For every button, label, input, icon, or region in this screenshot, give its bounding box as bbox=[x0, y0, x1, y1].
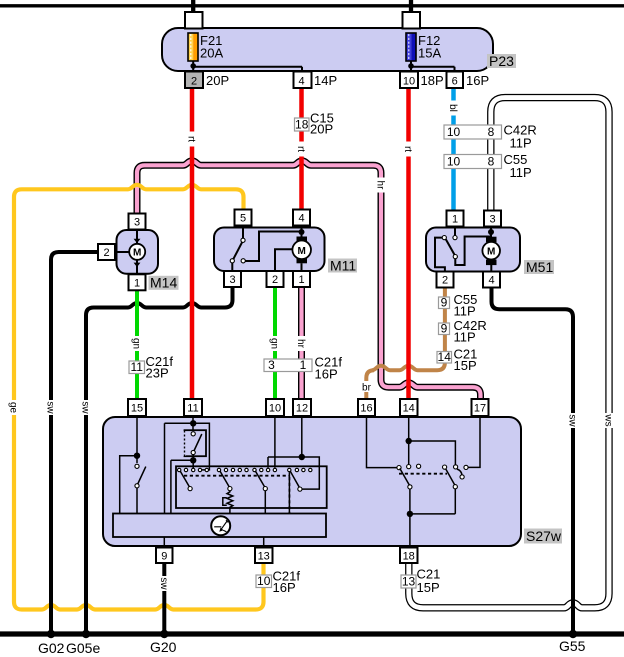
svg-text:8: 8 bbox=[488, 155, 495, 169]
pin 4 of M51 bbox=[483, 272, 500, 288]
svg-text:1: 1 bbox=[300, 358, 307, 372]
svg-text:15P: 15P bbox=[454, 358, 477, 373]
svg-text:14: 14 bbox=[438, 350, 452, 364]
svg-text:G05e: G05e bbox=[66, 640, 100, 656]
svg-text:rt: rt bbox=[186, 136, 197, 142]
wire blue bl: P23 pin6 down to M51 pin1 bbox=[451, 88, 456, 211]
svg-text:2: 2 bbox=[103, 247, 109, 259]
svg-text:4: 4 bbox=[298, 76, 304, 88]
wire pink hr: M14 pin3 up, right along y165, down x381, right along y387 to S27w pin17 bbox=[137, 161, 481, 400]
svg-text:4: 4 bbox=[488, 275, 494, 287]
svg-text:9: 9 bbox=[161, 551, 167, 563]
wire label bl on blue x453.5 bbox=[447, 101, 459, 116]
connector C21 15P pin 13 on white x408.7 bbox=[401, 567, 440, 596]
svg-text:2: 2 bbox=[272, 274, 278, 286]
wire label sw on black x86 bbox=[80, 400, 92, 415]
pin 17 of S27w bbox=[472, 399, 489, 416]
svg-text:M: M bbox=[487, 247, 495, 258]
wire label gn on green x275 bbox=[269, 336, 281, 351]
connector C21f 16P pin 10 on yellow x263.5 bbox=[256, 569, 300, 596]
svg-text:11: 11 bbox=[187, 403, 198, 415]
wire stub bus to F12 holder bbox=[409, 0, 413, 13]
label S27w bbox=[524, 528, 562, 544]
pin 13 of S27w bbox=[255, 548, 273, 564]
svg-text:12: 12 bbox=[296, 403, 308, 415]
wire stub bus to F21 holder bbox=[191, 0, 195, 13]
connector C55 11P pins 10/8 on blue+white bbox=[444, 152, 532, 180]
svg-text:M14: M14 bbox=[150, 275, 177, 291]
S27w internal: program switch bank box bbox=[176, 466, 327, 508]
svg-text:10: 10 bbox=[447, 125, 461, 139]
ground G05e bbox=[66, 630, 100, 656]
svg-text:G55: G55 bbox=[559, 638, 586, 654]
svg-text:1: 1 bbox=[298, 274, 304, 286]
svg-text:M11: M11 bbox=[330, 257, 356, 273]
svg-text:16P: 16P bbox=[466, 73, 489, 88]
label M14 bbox=[149, 275, 179, 291]
wire label sw on black x51 bbox=[45, 400, 57, 415]
svg-text:2: 2 bbox=[442, 275, 448, 287]
label M11 bbox=[328, 257, 357, 273]
pin 18 of S27w bbox=[400, 548, 418, 564]
svg-text:M51: M51 bbox=[526, 259, 553, 275]
pin 2 of M11 bbox=[267, 271, 284, 287]
svg-text:sw: sw bbox=[567, 414, 578, 427]
svg-text:16P: 16P bbox=[273, 580, 296, 595]
S27w internal: switch arm 1 bbox=[180, 471, 192, 491]
wire green gn: M11 pin2 down to S27w pin10 bbox=[273, 287, 277, 400]
pin 12 of S27w bbox=[293, 399, 311, 416]
pin 1 of M14 bbox=[129, 274, 146, 290]
svg-text:gn: gn bbox=[131, 338, 142, 349]
svg-text:G02: G02 bbox=[38, 640, 65, 656]
S27w internal: mechanical dashed link bbox=[184, 476, 289, 513]
pin 2 of P23 (20P) bbox=[185, 72, 229, 89]
svg-text:G20: G20 bbox=[150, 639, 177, 655]
svg-text:15: 15 bbox=[131, 403, 143, 415]
svg-text:2: 2 bbox=[191, 76, 197, 88]
wire label rt on red x192 bbox=[186, 132, 198, 147]
S27w internal: washer switch cluster pins 16/14/17 bbox=[367, 416, 481, 547]
pin 16 of S27w bbox=[358, 399, 375, 416]
svg-text:9: 9 bbox=[441, 322, 448, 336]
S27w internal: contact row circles bbox=[178, 468, 312, 471]
connector C21 15P pin 14 on brown bbox=[437, 347, 477, 374]
svg-text:15P: 15P bbox=[417, 580, 440, 595]
connector C42R 11P pin 9 on brown bbox=[439, 318, 487, 345]
S27w internal: switch arm 4 and pin12 hook bbox=[268, 416, 319, 514]
svg-text:10: 10 bbox=[257, 574, 271, 588]
motor M14 bbox=[116, 229, 159, 275]
svg-text:sw: sw bbox=[80, 401, 91, 414]
ground G55 bbox=[559, 630, 586, 654]
svg-text:18: 18 bbox=[295, 117, 309, 131]
svg-text:9: 9 bbox=[441, 296, 448, 310]
connector C21f 16P pins 3/1 on green+pink bbox=[264, 355, 342, 382]
pin 6 of P23 (16P) bbox=[447, 72, 490, 89]
svg-text:13: 13 bbox=[258, 551, 270, 563]
wire black sw: S27w pin9 down to G20 bbox=[162, 563, 166, 634]
pin 9 of S27w bbox=[156, 548, 173, 564]
svg-text:M: M bbox=[298, 246, 306, 257]
pin 15 of S27w bbox=[128, 399, 146, 416]
svg-text:11P: 11P bbox=[454, 330, 476, 345]
svg-text:gn: gn bbox=[269, 338, 280, 349]
node 30 supply bus top bbox=[0, 4, 624, 7]
wire label hr on pink x301.5 bbox=[295, 336, 307, 351]
pin 3 of M51 bbox=[484, 211, 501, 227]
svg-text:10: 10 bbox=[269, 403, 281, 415]
wire label br on brown x366 bbox=[357, 381, 376, 394]
svg-text:20P: 20P bbox=[310, 122, 333, 137]
wire label rt on red x301.5 bbox=[295, 142, 307, 157]
svg-text:11: 11 bbox=[130, 360, 143, 374]
wire black sw: M14 pin2 left, down x51 to G02 bbox=[51, 252, 99, 634]
wire white ws: S27w pin18 down, right along y607.8, up x609, left along y97.6 to M51 pin3 bbox=[409, 98, 609, 608]
fuse box P23 bbox=[162, 12, 493, 71]
svg-text:P23: P23 bbox=[489, 53, 514, 69]
wire red rt: P23 pin4 down to M11 pin4 bbox=[299, 88, 304, 210]
wire yellow ge: M11 pin5 up, left along y189, down x14, right along y609 to S27w pin13 bbox=[14, 185, 264, 610]
svg-text:3: 3 bbox=[268, 358, 275, 372]
ground G20 bbox=[150, 630, 177, 655]
svg-text:ws: ws bbox=[603, 413, 614, 426]
motor assembly M51 bbox=[426, 227, 520, 273]
svg-text:16P: 16P bbox=[315, 367, 338, 382]
svg-text:18: 18 bbox=[403, 551, 415, 563]
label M51 bbox=[524, 259, 554, 275]
pin 10 of S27w bbox=[266, 399, 284, 416]
svg-text:14P: 14P bbox=[314, 73, 337, 88]
S27w internal: pin11 branch, relay box and junctions bbox=[165, 416, 210, 514]
svg-text:S27w: S27w bbox=[526, 528, 562, 544]
svg-text:1: 1 bbox=[452, 214, 458, 226]
wire label rt on red x408.5 bbox=[402, 142, 414, 157]
S27w internal: pin15 branch with switch bbox=[120, 416, 146, 514]
svg-text:10: 10 bbox=[447, 155, 461, 169]
motor assembly M11 bbox=[214, 227, 325, 273]
svg-text:5: 5 bbox=[240, 213, 246, 225]
svg-text:bl: bl bbox=[447, 104, 458, 112]
connector C42R 11P pins 10/8 on blue+white bbox=[444, 123, 537, 151]
S27w internal: timer sub-box with clock bbox=[113, 514, 326, 548]
svg-text:17: 17 bbox=[474, 403, 486, 415]
svg-text:18P: 18P bbox=[421, 73, 444, 88]
S27w internal: switch arm 3 bbox=[255, 471, 267, 514]
svg-text:3: 3 bbox=[489, 214, 495, 226]
wiper switch S27w body bbox=[103, 417, 521, 546]
svg-text:6: 6 bbox=[452, 76, 458, 88]
svg-text:14: 14 bbox=[403, 403, 415, 415]
svg-text:3: 3 bbox=[229, 274, 235, 286]
wire pink hr: M11 pin1 down to S27w pin12 bbox=[298, 287, 305, 400]
svg-text:15A: 15A bbox=[418, 46, 441, 61]
pin 1 of M11 bbox=[293, 271, 310, 287]
wire black sw: M51 pin4 down, right along y309, down x573 to G55 bbox=[492, 287, 574, 634]
svg-text:M: M bbox=[133, 248, 141, 259]
svg-text:10: 10 bbox=[403, 76, 415, 88]
svg-text:8: 8 bbox=[488, 125, 495, 139]
svg-text:rt: rt bbox=[402, 146, 413, 152]
ground bus bottom bbox=[0, 631, 624, 636]
wire label ge on yellow x14 bbox=[8, 400, 20, 415]
pin 1 of M51 bbox=[447, 211, 464, 227]
pin 10 of P23 (18P) bbox=[400, 72, 444, 89]
svg-text:4: 4 bbox=[298, 213, 304, 225]
pin 11 of S27w bbox=[184, 399, 202, 416]
wire label sw on black x164 bbox=[158, 576, 170, 591]
wire red rt: P23 pin10 down to S27w pin14 bbox=[406, 88, 411, 400]
svg-text:13: 13 bbox=[402, 574, 416, 588]
pin 3 of M11 bbox=[224, 271, 241, 287]
pin 3 of M14 bbox=[129, 214, 146, 230]
svg-text:sw: sw bbox=[45, 401, 56, 414]
wire black sw: M11 pin3 down, left along y307, down x86 to G05e bbox=[86, 287, 233, 634]
wire label hr on pink x381 bbox=[375, 178, 387, 193]
svg-text:16: 16 bbox=[360, 403, 372, 415]
svg-text:rt: rt bbox=[295, 146, 306, 152]
svg-text:br: br bbox=[362, 383, 372, 394]
svg-text:20P: 20P bbox=[206, 73, 229, 88]
svg-text:ge: ge bbox=[8, 402, 19, 414]
wire brown br: M51 pin2 down through connectors, left along y370, down x366 to S27w pin16 bbox=[366, 287, 445, 400]
fuse F21 20A bbox=[188, 33, 302, 72]
pin 4 of P23 (14P) bbox=[294, 72, 338, 89]
ground G02 bbox=[38, 630, 65, 656]
connector C55 11P pin 9 on brown bbox=[439, 292, 478, 319]
wire label gn on green x137 bbox=[131, 336, 143, 351]
svg-text:11P: 11P bbox=[510, 165, 532, 180]
wire green gn: M14 pin1 down to S27w pin15 bbox=[135, 290, 139, 400]
pin 4 of M11 bbox=[293, 210, 310, 226]
pin 2 of M51 bbox=[437, 272, 454, 288]
pin 14 of S27w bbox=[400, 399, 418, 416]
fuse F12 15A bbox=[406, 33, 455, 72]
svg-text:hr: hr bbox=[295, 339, 306, 349]
svg-text:sw: sw bbox=[158, 577, 169, 590]
svg-text:20A: 20A bbox=[200, 46, 223, 61]
pin 2 of M14 bbox=[98, 244, 115, 260]
wire label ws on white x609 bbox=[603, 413, 615, 428]
svg-text:1: 1 bbox=[134, 277, 140, 289]
wire label sw on black x573 bbox=[567, 413, 579, 428]
connector C21f 23P pin 11 on green x137 bbox=[129, 354, 173, 381]
connector C15 20P pin 18 on red x301.5 bbox=[295, 111, 334, 137]
svg-text:11P: 11P bbox=[454, 304, 476, 319]
svg-text:3: 3 bbox=[134, 217, 140, 229]
svg-text:11P: 11P bbox=[510, 136, 532, 151]
svg-text:23P: 23P bbox=[146, 366, 169, 381]
wire red rt: P23 pin2 down to S27w pin11 bbox=[190, 88, 195, 400]
svg-text:hr: hr bbox=[375, 181, 386, 191]
label P23 bbox=[487, 53, 516, 69]
S27w internal: switch arm 2 with heater resistor bbox=[220, 471, 233, 514]
pin 5 of M11 bbox=[235, 210, 252, 226]
